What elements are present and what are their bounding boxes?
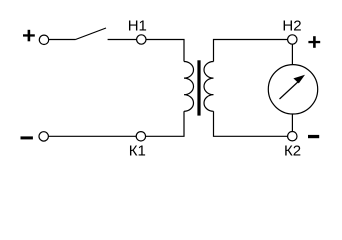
svg-text:К1: К1	[129, 143, 146, 160]
svg-text:Н1: Н1	[128, 17, 147, 34]
svg-text:К2: К2	[284, 143, 301, 160]
svg-text:Н2: Н2	[282, 17, 301, 34]
